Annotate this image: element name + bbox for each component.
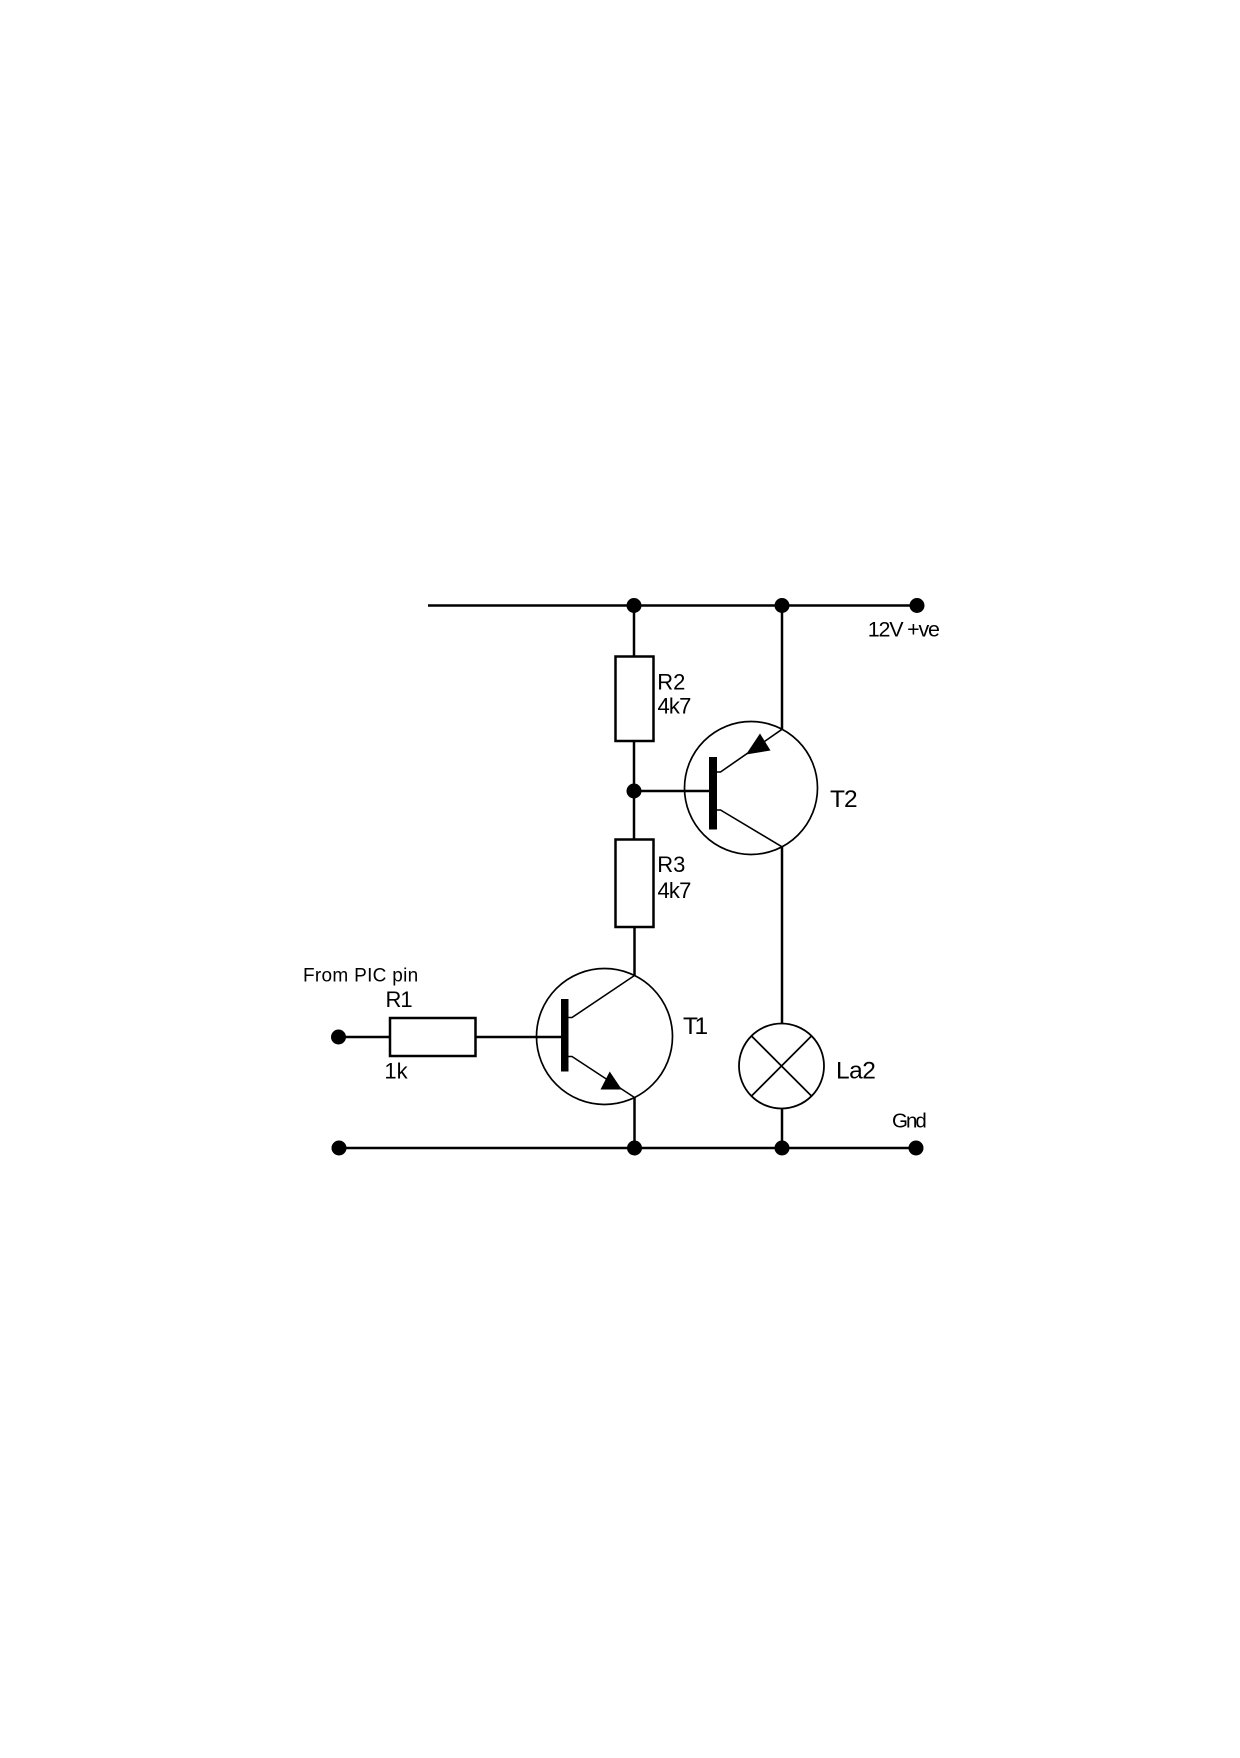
wire R1 to T1 base [476,1036,562,1039]
T1 collector lead [569,976,635,1018]
wire input terminal to R1 [339,1036,391,1039]
T1 emitter arrow [601,1072,622,1090]
T2 collector lead [717,810,782,847]
La2 body circle [739,1024,824,1109]
svg-text:4k7: 4k7 [658,694,692,719]
T1 body circle [537,969,673,1105]
lamp La2 [739,1024,824,1109]
svg-text:12V +ve: 12V +ve [868,617,939,641]
La2 cross line 1 [751,1036,811,1096]
svg-text:R2: R2 [657,670,685,695]
node junction top rail / T2 emitter [775,598,790,613]
wire T2 collector to lamp [781,847,784,1024]
wire ground rail [339,1147,916,1150]
node terminal 12V +ve [910,598,925,613]
wire R3 to T1 collector [633,927,636,976]
wire T2 emitter to top rail [781,606,784,730]
resistor R3 [616,840,654,928]
svg-text:La2: La2 [836,1057,875,1084]
node terminal ground left [332,1141,347,1156]
svg-text:T1: T1 [683,1013,707,1040]
T2 body circle [685,722,818,855]
wire 12V top rail [428,604,917,607]
svg-text:Gnd: Gnd [892,1110,926,1133]
wire R2 to node A [633,741,636,791]
T2 emitter lead [717,729,782,772]
wire node A to T2 base [634,790,710,793]
T1 emitter lead [569,1057,635,1098]
transistor T2 (PNP) [685,722,818,855]
node junction top rail / R2 [627,598,642,613]
T2 emitter arrow [746,734,771,755]
T2 base bar [709,757,717,830]
svg-text:R3: R3 [657,852,685,877]
node terminal input from PIC [331,1030,346,1045]
node A junction R2/R3/T2 base [627,784,642,799]
svg-text:From PIC pin: From PIC pin [303,965,419,986]
svg-text:1k: 1k [384,1058,408,1083]
resistor R2 [616,657,654,742]
node junction ground / lamp [775,1141,790,1156]
node terminal ground right [909,1141,924,1156]
wire top rail to R2 [633,606,636,659]
T1 base bar [561,999,569,1072]
resistor R1 [390,1018,476,1056]
svg-text:4k7: 4k7 [658,878,692,903]
node junction ground / T1 emitter [627,1141,642,1156]
transistor T1 (NPN) [537,969,673,1105]
La2 cross line 2 [751,1036,811,1096]
svg-text:R1: R1 [386,987,413,1012]
wire lamp to ground rail [781,1109,784,1149]
svg-text:T2: T2 [830,786,857,813]
wire node A to R3 [633,791,636,841]
wire T1 emitter to ground rail [633,1098,636,1149]
